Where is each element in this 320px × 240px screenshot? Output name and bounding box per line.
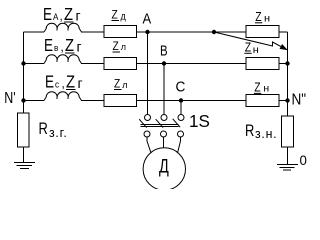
label EB Zg	[44, 36, 82, 56]
node B junction	[162, 61, 166, 65]
svg-text:C: C	[176, 79, 186, 96]
switch 1S gang bar	[141, 124, 179, 126]
svg-text:в: в	[54, 43, 59, 54]
wire phase B row	[24, 63, 45, 65]
resistor R z.n.	[282, 116, 294, 147]
label Z line A	[112, 9, 127, 23]
svg-text:Z: Z	[114, 78, 120, 91]
switch 1S bottom contacts	[144, 131, 150, 137]
resistor box ZH load phase B	[246, 58, 279, 70]
svg-text:E: E	[44, 36, 53, 55]
svg-text:N": N"	[292, 92, 307, 109]
svg-text:г: г	[77, 38, 82, 54]
resistor box ZH load phase C	[246, 95, 279, 107]
fault arrow head	[280, 45, 286, 50]
wire switch to motor right	[178, 137, 181, 153]
wire phase C row	[24, 100, 45, 102]
label Z line C	[114, 78, 128, 91]
resistor box ZL phase B	[104, 58, 137, 70]
junction right bus B	[285, 61, 289, 65]
ground generator	[14, 163, 35, 169]
wire node B drop	[163, 64, 165, 115]
label EA Zg	[43, 5, 81, 25]
inductor EC coil	[44, 92, 82, 101]
svg-text:E: E	[45, 73, 54, 92]
wire load A to right bus	[279, 31, 288, 33]
svg-text:Z: Z	[254, 80, 260, 94]
wire switch to motor left	[147, 137, 151, 153]
svg-text:А: А	[53, 12, 59, 23]
label R z.g.	[39, 119, 68, 140]
svg-text:N': N'	[4, 90, 16, 108]
label R z.n.	[245, 121, 277, 141]
svg-text:з.г.: з.г.	[49, 126, 68, 140]
wire N-prime to ground resistor	[23, 101, 25, 114]
svg-text:Z: Z	[112, 9, 118, 22]
svg-text:Z: Z	[255, 10, 261, 24]
svg-text:1S: 1S	[189, 111, 210, 132]
svg-text:н: н	[253, 45, 259, 56]
svg-text:Z: Z	[65, 36, 74, 56]
svg-text:н: н	[264, 13, 270, 24]
label EC Zg	[45, 72, 83, 92]
wire R z.n. to ground	[287, 147, 289, 165]
switch 1S top contacts	[145, 115, 151, 121]
svg-text:R: R	[39, 119, 48, 138]
junction node N-prime	[21, 98, 25, 102]
resistor R z.g.	[18, 113, 30, 147]
node A junction	[145, 30, 149, 34]
svg-text:0: 0	[300, 153, 308, 168]
wire box A to load	[137, 31, 247, 33]
wire load B to right bus	[279, 63, 288, 65]
wire load C to right bus	[279, 100, 288, 102]
label Z line B	[113, 40, 127, 53]
wire box B to load	[137, 63, 247, 65]
inductor EA coil	[44, 23, 82, 32]
svg-text:Z: Z	[66, 72, 75, 92]
wire left bus	[23, 32, 25, 113]
ground neutral	[277, 165, 298, 171]
wire box C to load	[137, 100, 247, 102]
svg-text:B: B	[160, 42, 168, 59]
svg-text:Д: Д	[159, 156, 169, 177]
wire coil C to box	[81, 100, 104, 102]
svg-text:с: с	[55, 79, 60, 90]
svg-text:E: E	[43, 5, 52, 24]
svg-text:г: г	[78, 75, 83, 91]
svg-text:R: R	[245, 121, 254, 140]
junction node N-double-prime	[285, 98, 289, 102]
wire right bus	[287, 32, 289, 116]
wire phase A row	[24, 31, 45, 33]
fault arrow origin junction	[212, 30, 216, 34]
resistor box ZA (line impedance phase A)	[104, 26, 137, 38]
svg-text:,: ,	[61, 39, 64, 54]
svg-text:л: л	[121, 42, 126, 52]
resistor box ZL phase C	[104, 95, 137, 107]
svg-text:Z: Z	[64, 5, 73, 25]
label ZH phase B	[244, 40, 259, 56]
svg-text:A: A	[143, 10, 152, 27]
svg-text:д: д	[121, 11, 127, 23]
motor D circle	[143, 148, 185, 190]
wire node A drop	[147, 32, 149, 115]
label ZH phase C	[254, 80, 269, 94]
fault arrow shaft	[214, 32, 281, 47]
switch 1S blades	[139, 119, 180, 128]
svg-text:н: н	[263, 83, 269, 94]
svg-text:л: л	[122, 80, 127, 90]
wire node C drop	[180, 101, 182, 115]
resistor box ZH load phase A	[246, 26, 279, 38]
svg-text:Z: Z	[245, 40, 251, 54]
node C junction	[179, 98, 183, 102]
wire coil B to box	[81, 63, 104, 65]
svg-text:з.н.: з.н.	[255, 127, 277, 141]
svg-text:,: ,	[60, 8, 63, 23]
svg-text:г: г	[76, 7, 81, 23]
wire R z.g. to ground	[23, 147, 25, 163]
svg-text:Z: Z	[113, 40, 119, 53]
wire switch to motor middle	[163, 137, 165, 148]
svg-text:,: ,	[62, 76, 65, 91]
label ZH phase A	[255, 10, 270, 24]
junction node left bus B	[21, 61, 25, 65]
wire coil A to box	[81, 31, 104, 33]
inductor EB coil	[44, 55, 82, 64]
